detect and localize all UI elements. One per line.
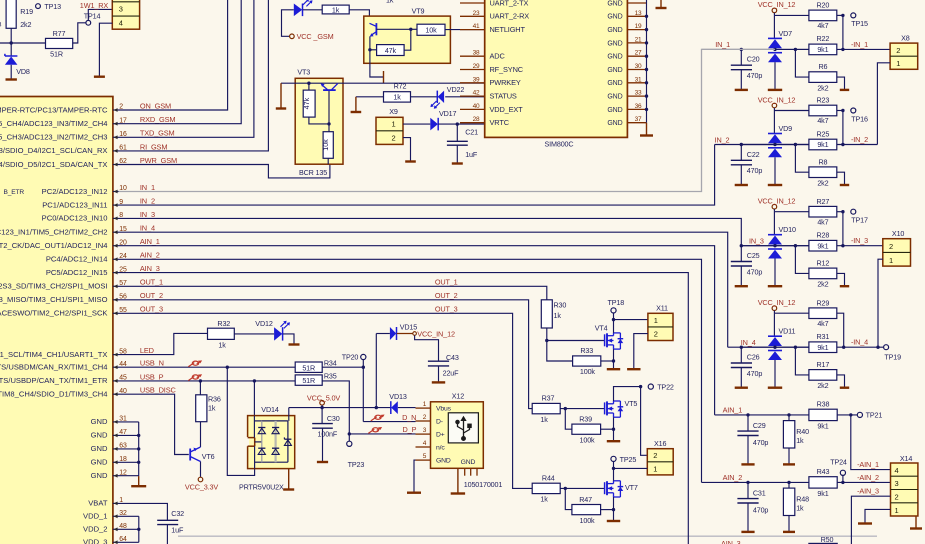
svg-text:-IN_3: -IN_3: [851, 236, 868, 245]
svg-text:RXD_GSM: RXD_GSM: [140, 115, 176, 124]
svg-text:TP24: TP24: [830, 457, 847, 466]
svg-text:3/SDIO_D4/I2C1_SCL/CAN_RX: 3/SDIO_D4/I2C1_SCL/CAN_RX: [0, 146, 108, 155]
svg-text:R50: R50: [821, 535, 834, 544]
svg-text:Vbus: Vbus: [436, 406, 452, 413]
svg-text:VD11: VD11: [779, 327, 796, 336]
svg-text:TS/USBDP/CAN_TX/TIM1_ETR: TS/USBDP/CAN_TX/TIM1_ETR: [0, 376, 108, 385]
svg-text:4k7: 4k7: [817, 116, 828, 125]
svg-text:2k2: 2k2: [20, 20, 31, 29]
svg-text:4k7: 4k7: [817, 217, 828, 226]
svg-text:R8: R8: [818, 157, 827, 166]
svg-text:PC4/ADC12_IN14: PC4/ADC12_IN14: [46, 255, 108, 264]
svg-text:VD9: VD9: [779, 124, 793, 133]
svg-text:R34: R34: [324, 359, 337, 368]
svg-text:-AIN_1: -AIN_1: [857, 460, 879, 469]
svg-text:R30: R30: [554, 300, 567, 309]
svg-text:9k1: 9k1: [817, 140, 828, 149]
svg-text:2: 2: [896, 46, 900, 55]
svg-text:23: 23: [473, 10, 480, 17]
svg-text:IN_3: IN_3: [140, 210, 155, 219]
svg-text:GND: GND: [461, 459, 476, 466]
svg-text:B_ETR: B_ETR: [3, 189, 24, 196]
svg-text:19: 19: [635, 23, 642, 30]
svg-text:30: 30: [635, 63, 642, 70]
svg-text:1k: 1k: [540, 495, 548, 504]
svg-text:OUT_2: OUT_2: [435, 291, 458, 300]
svg-text:2k2: 2k2: [817, 83, 828, 92]
svg-text:UART_2-RX: UART_2-RX: [490, 12, 530, 21]
svg-text:TXD_GSM: TXD_GSM: [140, 129, 175, 138]
svg-text:1k: 1k: [540, 415, 548, 424]
svg-text:VDD_EXT: VDD_EXT: [490, 105, 524, 114]
svg-text:R28: R28: [817, 231, 830, 240]
svg-text:-AIN_3: -AIN_3: [857, 487, 879, 496]
svg-text:47k: 47k: [302, 97, 311, 109]
svg-text:PRTR5V0U2X: PRTR5V0U2X: [239, 482, 284, 491]
svg-text:100k: 100k: [580, 367, 596, 376]
svg-text:R25: R25: [817, 129, 830, 138]
svg-text:VCC_IN_12: VCC_IN_12: [758, 298, 796, 307]
svg-text:BCR 135: BCR 135: [299, 168, 327, 177]
svg-text:TP23: TP23: [348, 460, 365, 469]
svg-text:D+: D+: [436, 432, 445, 439]
svg-text:2k2: 2k2: [817, 381, 828, 390]
svg-text:R29: R29: [817, 298, 830, 307]
svg-text:29: 29: [473, 63, 480, 70]
svg-text:VT6: VT6: [202, 452, 215, 461]
svg-text:R48: R48: [796, 495, 809, 504]
svg-text:1: 1: [894, 506, 898, 515]
svg-text:C21: C21: [465, 128, 478, 137]
svg-text:1k: 1k: [796, 504, 804, 513]
svg-text:RACESWO/TIM2_CH2/SPI1_SCK: RACESWO/TIM2_CH2/SPI1_SCK: [0, 309, 108, 318]
svg-text:51R: 51R: [302, 376, 315, 385]
svg-text:R31: R31: [817, 332, 830, 341]
svg-text:USB_DISC: USB_DISC: [140, 386, 177, 395]
svg-text:GND: GND: [607, 80, 622, 87]
svg-text:GND: GND: [607, 107, 622, 114]
svg-text:GND: GND: [607, 54, 622, 61]
svg-text:-IN_1: -IN_1: [851, 40, 868, 49]
svg-text:47k: 47k: [385, 46, 397, 55]
svg-text:OUT_3: OUT_3: [435, 305, 458, 314]
svg-text:100k: 100k: [580, 516, 596, 525]
svg-text:GND: GND: [607, 94, 622, 101]
svg-text:51R: 51R: [50, 49, 63, 58]
svg-text:2: 2: [423, 414, 427, 421]
svg-text:40: 40: [473, 103, 480, 110]
svg-text:4: 4: [894, 466, 898, 475]
svg-text:-IN_4: -IN_4: [851, 338, 868, 347]
svg-text:R23: R23: [817, 96, 830, 105]
svg-text:4k7: 4k7: [817, 21, 828, 30]
svg-text:R47: R47: [579, 495, 592, 504]
svg-text:VDD_2: VDD_2: [83, 525, 107, 534]
svg-text:R33: R33: [580, 346, 593, 355]
svg-text:VD14: VD14: [261, 405, 279, 414]
svg-text:VT9: VT9: [412, 7, 425, 16]
svg-text:13: 13: [635, 10, 642, 17]
svg-text:GND: GND: [91, 444, 108, 453]
svg-text:R39: R39: [579, 415, 592, 424]
svg-text:GND: GND: [607, 67, 622, 74]
svg-text:VCC _GSM: VCC _GSM: [297, 32, 334, 41]
svg-text:38: 38: [473, 50, 480, 57]
svg-text:3: 3: [119, 5, 123, 14]
svg-text:VT5: VT5: [625, 399, 638, 408]
svg-text:100nF: 100nF: [318, 430, 338, 439]
svg-text:SIM800C: SIM800C: [545, 140, 574, 149]
svg-text:42: 42: [473, 90, 480, 97]
svg-text:C26: C26: [747, 353, 760, 362]
svg-text:1uF: 1uF: [465, 150, 478, 159]
svg-text:39: 39: [473, 76, 480, 83]
svg-text:OUT_3: OUT_3: [140, 305, 163, 314]
svg-text:X16: X16: [654, 439, 666, 448]
svg-text:USB_N: USB_N: [140, 359, 164, 368]
svg-text:C43: C43: [446, 353, 459, 362]
svg-text:R36: R36: [208, 395, 221, 404]
svg-text:1: 1: [653, 464, 657, 473]
svg-text:GND: GND: [91, 458, 108, 467]
svg-text:2: 2: [653, 451, 657, 460]
svg-text:R20: R20: [817, 1, 830, 10]
svg-text:ON_GSM: ON_GSM: [140, 101, 171, 110]
svg-text:27: 27: [635, 50, 642, 57]
svg-text:1: 1: [654, 316, 658, 325]
svg-text:9k1: 9k1: [817, 422, 828, 431]
svg-text:STATUS: STATUS: [490, 92, 517, 101]
svg-text:2: 2: [889, 242, 893, 251]
svg-text:GND: GND: [607, 40, 622, 47]
svg-text:R37: R37: [542, 394, 555, 403]
svg-text:33: 33: [635, 90, 642, 97]
svg-text:1: 1: [392, 120, 396, 129]
svg-text:2k2: 2k2: [817, 280, 828, 289]
svg-text:4: 4: [423, 440, 427, 447]
svg-text:X10: X10: [892, 229, 904, 238]
svg-text:VDD_3: VDD_3: [83, 538, 107, 544]
svg-text:R72: R72: [394, 82, 407, 91]
svg-text:3: 3: [894, 479, 898, 488]
svg-text:R44: R44: [542, 473, 555, 482]
svg-text:VT3: VT3: [297, 68, 310, 77]
svg-text:GND: GND: [607, 27, 622, 34]
svg-text:GND: GND: [607, 120, 622, 127]
svg-text:UART_2-TX: UART_2-TX: [490, 0, 529, 7]
svg-text:TP17: TP17: [851, 216, 868, 225]
svg-text:2: 2: [392, 133, 396, 142]
svg-text:R19: R19: [20, 7, 33, 16]
svg-text:1uF: 1uF: [171, 526, 184, 535]
svg-text:X9: X9: [389, 107, 398, 116]
svg-text:R22: R22: [817, 34, 830, 43]
svg-text:n/c: n/c: [436, 445, 445, 452]
svg-text:GND: GND: [607, 0, 622, 7]
svg-text:1k: 1k: [386, 0, 394, 5]
svg-text:PC2/ADC123_IN12: PC2/ADC123_IN12: [42, 187, 108, 196]
svg-text:R32: R32: [217, 319, 230, 328]
svg-text:VT4: VT4: [595, 324, 608, 333]
svg-text:GND: GND: [91, 471, 108, 480]
svg-text:VD7: VD7: [779, 29, 793, 38]
svg-text:VCC_IN_12: VCC_IN_12: [758, 95, 796, 104]
svg-text:C20: C20: [747, 55, 760, 64]
svg-text:PC1/ADC123_IN11: PC1/ADC123_IN11: [42, 200, 107, 209]
svg-text:TP16: TP16: [851, 114, 868, 123]
svg-text:TP20: TP20: [342, 352, 359, 361]
svg-text:TP15: TP15: [851, 19, 868, 28]
svg-text:9k1: 9k1: [817, 45, 828, 54]
svg-text:RT2_CK/DAC_OUT1/ADC12_IN4: RT2_CK/DAC_OUT1/ADC12_IN4: [0, 241, 108, 250]
svg-text:470p: 470p: [747, 267, 763, 276]
svg-text:1k: 1k: [218, 341, 226, 350]
svg-text:PWRKEY: PWRKEY: [490, 78, 521, 87]
svg-text:R6: R6: [818, 62, 827, 71]
svg-text:NETLIGHT: NETLIGHT: [490, 25, 526, 34]
svg-text:TP13: TP13: [44, 2, 61, 11]
svg-text:PC0/ADC123_IN10: PC0/ADC123_IN10: [42, 214, 108, 223]
svg-text:GND: GND: [436, 458, 451, 465]
svg-text:OUT_2: OUT_2: [140, 291, 163, 300]
svg-text:OUT_1: OUT_1: [435, 278, 458, 287]
svg-text:PI3_MISO/TIM3_CH1/SPI1_MISO: PI3_MISO/TIM3_CH1/SPI1_MISO: [0, 295, 108, 304]
svg-text:-AIN_2: -AIN_2: [857, 473, 879, 482]
svg-text:PC5/ADC12_IN15: PC5/ADC12_IN15: [46, 268, 108, 277]
svg-text:2: 2: [654, 329, 658, 338]
svg-text:R40: R40: [796, 427, 809, 436]
svg-text:C123_IN1/TIM5_CH2/TIM2_CH2: C123_IN1/TIM5_CH2/TIM2_CH2: [0, 228, 108, 237]
svg-text:TP18: TP18: [608, 298, 625, 307]
svg-text:470p: 470p: [747, 71, 763, 80]
svg-text:1: 1: [889, 256, 893, 265]
svg-text:D_N: D_N: [402, 413, 416, 422]
svg-text:X14: X14: [900, 454, 912, 463]
svg-text:TP22: TP22: [657, 382, 674, 391]
svg-text:5: 5: [423, 453, 427, 460]
svg-text:C22: C22: [747, 150, 760, 159]
svg-text:GND: GND: [607, 14, 622, 21]
svg-text:RI_GSM: RI_GSM: [140, 142, 167, 151]
svg-text:C29: C29: [753, 421, 766, 430]
svg-text:470p: 470p: [747, 369, 763, 378]
svg-text:1k: 1k: [393, 93, 401, 102]
svg-text:GND: GND: [91, 431, 108, 440]
svg-text:9k1: 9k1: [817, 489, 828, 498]
svg-text:-IN_2: -IN_2: [851, 135, 868, 144]
svg-text:M5_CH4/ADC123_IN3/TIM2_CH4: M5_CH4/ADC123_IN3/TIM2_CH4: [0, 119, 108, 128]
svg-text:1: 1: [896, 59, 900, 68]
svg-text:41: 41: [473, 23, 480, 30]
svg-text:C25: C25: [747, 251, 760, 260]
svg-text:37: 37: [635, 116, 642, 123]
svg-text:X8: X8: [901, 34, 910, 43]
svg-text:TP21: TP21: [866, 411, 883, 420]
svg-text:9k1: 9k1: [817, 241, 828, 250]
svg-text:LED: LED: [140, 346, 154, 355]
svg-text:1W1_RX: 1W1_RX: [80, 1, 109, 10]
svg-text:GND: GND: [91, 417, 108, 426]
svg-text:USB_P: USB_P: [140, 372, 164, 381]
svg-text:IN_2: IN_2: [715, 135, 730, 144]
svg-text:R12: R12: [817, 259, 830, 268]
svg-text:10k: 10k: [321, 139, 330, 151]
svg-text:4k7: 4k7: [817, 319, 828, 328]
svg-text:1k: 1k: [332, 5, 340, 14]
svg-text:VRTC: VRTC: [490, 118, 510, 127]
svg-text:22uF: 22uF: [443, 368, 460, 377]
svg-text:IN_1: IN_1: [715, 40, 730, 49]
svg-text:VCC_5.0V: VCC_5.0V: [307, 394, 341, 403]
svg-text:D_P: D_P: [403, 425, 417, 434]
svg-text:AIN_3: AIN_3: [721, 539, 741, 544]
svg-text:R43: R43: [817, 467, 830, 476]
svg-text:VCC_IN_12: VCC_IN_12: [417, 330, 455, 339]
svg-text:C30: C30: [327, 414, 340, 423]
svg-text:RF_SYNC: RF_SYNC: [490, 65, 524, 74]
svg-text:21: 21: [635, 36, 642, 43]
svg-text:51R: 51R: [302, 363, 315, 372]
svg-text:C1_SCL/TIM4_CH1/USART1_TX: C1_SCL/TIM4_CH1/USART1_TX: [0, 350, 108, 359]
svg-text:470p: 470p: [747, 166, 763, 175]
svg-text:X11: X11: [656, 304, 668, 313]
svg-text:VT7: VT7: [625, 483, 638, 492]
svg-text:D-: D-: [436, 419, 443, 426]
svg-text:VCC_IN_12: VCC_IN_12: [758, 0, 796, 9]
svg-text:VD13: VD13: [389, 392, 407, 401]
svg-text:4/SDIO_D5/I2C1_SDA/CAN_TX: 4/SDIO_D5/I2C1_SDA/CAN_TX: [0, 160, 108, 169]
svg-text:VD10: VD10: [779, 225, 797, 234]
svg-text:M5_CH3/ADC123_IN2/TIM2_CH3: M5_CH3/ADC123_IN2/TIM2_CH3: [0, 133, 108, 142]
svg-text:1k: 1k: [796, 436, 804, 445]
svg-text:X12: X12: [452, 392, 464, 401]
svg-text:R38: R38: [817, 399, 830, 408]
svg-text:10k: 10k: [425, 25, 437, 34]
svg-text:IN_4: IN_4: [140, 224, 155, 233]
svg-text:/TIM8_CH4/SDIO_D1/TIM3_CH4: /TIM8_CH4/SDIO_D1/TIM3_CH4: [0, 390, 108, 399]
svg-text:VBAT: VBAT: [88, 499, 108, 508]
svg-text:TP14: TP14: [84, 11, 101, 20]
svg-text:TP19: TP19: [884, 353, 901, 362]
svg-text:VD22: VD22: [447, 85, 465, 94]
svg-text:3: 3: [423, 427, 427, 434]
svg-text:R27: R27: [817, 197, 830, 206]
svg-text:1050170001: 1050170001: [464, 480, 503, 489]
svg-text:IN_4: IN_4: [741, 338, 756, 347]
svg-text:470p: 470p: [753, 505, 769, 514]
svg-text:AIN_2: AIN_2: [723, 473, 743, 482]
svg-text:PWR_GSM: PWR_GSM: [140, 156, 177, 165]
svg-text:AIN_2: AIN_2: [140, 251, 160, 260]
svg-text:1: 1: [423, 401, 427, 408]
svg-text:36: 36: [635, 103, 642, 110]
svg-text:2k2: 2k2: [817, 178, 828, 187]
svg-text:C32: C32: [171, 509, 184, 518]
svg-text:28: 28: [473, 116, 480, 123]
svg-text:VD15: VD15: [400, 323, 418, 332]
svg-text:R35: R35: [324, 372, 337, 381]
svg-text:AIN_1: AIN_1: [723, 405, 743, 414]
svg-text:AIN_1: AIN_1: [140, 237, 160, 246]
svg-text:470p: 470p: [753, 438, 769, 447]
svg-text:VCC_IN_12: VCC_IN_12: [758, 197, 796, 206]
svg-text:IN_3: IN_3: [749, 237, 764, 246]
svg-text:R17: R17: [817, 360, 830, 369]
svg-text:VCC_3.3V: VCC_3.3V: [185, 482, 219, 491]
svg-text:1k: 1k: [208, 404, 216, 413]
svg-text:VD8: VD8: [16, 67, 30, 76]
svg-text:AIN_3: AIN_3: [140, 264, 160, 273]
svg-text:TP25: TP25: [620, 455, 637, 464]
svg-text:C31: C31: [753, 488, 766, 497]
svg-text:100k: 100k: [580, 436, 596, 445]
svg-text:31: 31: [635, 76, 642, 83]
svg-text:VD17: VD17: [439, 109, 457, 118]
svg-text:IN_1: IN_1: [140, 183, 155, 192]
svg-text:2: 2: [894, 493, 898, 502]
svg-text:9k1: 9k1: [817, 343, 828, 352]
svg-text:R77: R77: [53, 29, 66, 38]
svg-text:OUT_1: OUT_1: [140, 278, 163, 287]
svg-text:IN_2: IN_2: [140, 197, 155, 206]
svg-text:VD12: VD12: [255, 319, 273, 328]
svg-text:ADC: ADC: [490, 52, 506, 61]
svg-text:TS/USBDM/CAN_RX/TIM1_CH4: TS/USBDM/CAN_RX/TIM1_CH4: [0, 363, 108, 372]
svg-text:I2S3_SD/TIM3_CH2/SPI1_MOSI: I2S3_SD/TIM3_CH2/SPI1_MOSI: [0, 282, 108, 291]
svg-text:MPER-RTC/PC13/TAMPER-RTC: MPER-RTC/PC13/TAMPER-RTC: [0, 105, 108, 114]
svg-text:VDD_1: VDD_1: [83, 512, 107, 521]
svg-text:4: 4: [119, 19, 123, 28]
svg-text:1k: 1k: [554, 311, 562, 320]
